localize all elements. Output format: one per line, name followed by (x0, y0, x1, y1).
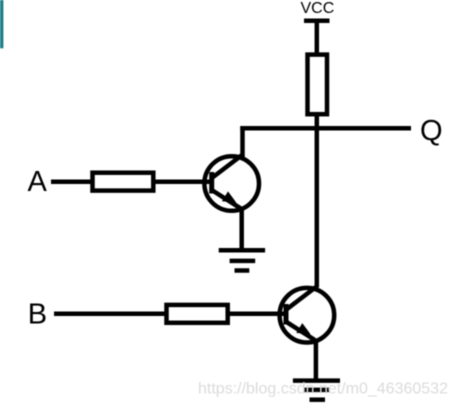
wire RB to Q2 base (227, 312, 286, 317)
resistor RA (93, 173, 154, 191)
VCC power rail bar (304, 19, 330, 24)
wire node to Q1 collector (240, 126, 245, 157)
wire RA to Q1 base (153, 180, 212, 185)
resistor R1 (308, 55, 328, 115)
wire VCC to resistor R1 (315, 21, 320, 55)
svg-text:https://blog.csdn.net/m0_46360: https://blog.csdn.net/m0_46360532 (198, 381, 448, 398)
svg-text:B: B (28, 299, 47, 331)
wire B to resistor RB (54, 312, 167, 317)
svg-text:Q: Q (420, 115, 443, 147)
svg-text:A: A (28, 166, 48, 198)
ground (Q1 emitter) (219, 250, 265, 270)
resistor RB (167, 305, 228, 323)
ground (Q2 emitter) (293, 381, 340, 400)
wire output node to Q (240, 126, 411, 131)
transistor Q1 (204, 155, 259, 211)
wire Q2 emitter to ground (314, 340, 319, 381)
wire R1 bottom to Q2 collector (315, 112, 320, 288)
transistor Q2 (280, 287, 335, 343)
wire A to resistor RA (51, 180, 93, 185)
teal scrollbar fragment (0, 0, 3, 48)
wire Q1 emitter to ground (239, 208, 244, 250)
svg-text:VCC: VCC (301, 0, 335, 17)
